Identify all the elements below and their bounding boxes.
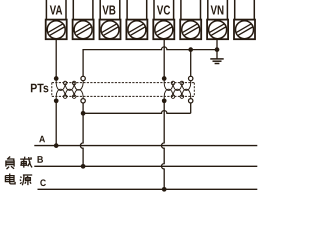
terminal 2 <box>73 0 94 39</box>
PT2 dot secondary left <box>162 98 167 103</box>
junction line A / PT1 left <box>54 143 59 148</box>
wire PT2 secondary right down to tie branch <box>190 103 192 113</box>
label PTs <box>31 84 49 93</box>
PT1 (left transformer) <box>54 76 85 103</box>
junction branch/PT1 wire <box>81 111 86 116</box>
PT1 dot secondary left <box>54 98 59 103</box>
PT2 top winding <box>164 79 191 91</box>
terminal VN (T7) <box>207 0 228 39</box>
label C <box>40 179 46 186</box>
terminal 4 <box>126 0 147 39</box>
wire bus to PT2 secondary right <box>190 50 192 77</box>
junction line B / PT1 right <box>81 164 86 169</box>
PT2 open terminal bottom right <box>189 99 193 103</box>
line A <box>34 145 257 147</box>
label B <box>38 156 44 163</box>
terminal VB (T3) <box>100 0 121 39</box>
tie branch between PT1 and PT2 right secondaries (hop over VC lead) <box>83 111 191 114</box>
line B <box>34 165 257 167</box>
wire bus to PT1 secondary right <box>82 50 84 77</box>
ground <box>210 50 223 64</box>
PT1 open terminal top right <box>81 76 85 80</box>
label 负载 (load) hand-drawn <box>6 157 32 170</box>
PT2 open terminal top right <box>189 76 193 80</box>
line C <box>38 188 258 190</box>
PT1 open terminal bottom right <box>81 99 85 103</box>
terminal VA (T1) <box>46 0 67 39</box>
wire VA terminal to PT1 primary <box>55 39 57 77</box>
junction bus/VN/ground <box>215 47 220 52</box>
wire VC terminal to PT2 primary (crosses bus with hop) <box>163 39 165 77</box>
label 电源 (power source) hand-drawn <box>5 174 32 186</box>
label A <box>39 136 45 142</box>
PT1 dot primary left <box>54 76 59 81</box>
dashed PT enclosure box <box>52 83 195 97</box>
PT2 (right transformer) <box>162 76 193 103</box>
terminal VC (T5) <box>153 0 174 39</box>
wire PT2 secondary left down to line C (hops over lines A and B) <box>161 103 164 189</box>
wire PT1 secondary right down to line B (hop over line A) <box>80 103 83 166</box>
junction line C / PT2 left <box>162 187 167 192</box>
wire VN terminal to bus <box>216 39 218 50</box>
PT2 bottom winding <box>164 89 191 101</box>
PT1 top winding <box>56 79 83 91</box>
wire PT1 secondary left down to line A <box>55 103 57 146</box>
terminal 8 <box>234 0 255 39</box>
PT1 bottom winding <box>56 89 83 101</box>
terminal 6 <box>180 0 201 39</box>
junction bus/PT2 <box>188 47 193 52</box>
bus wire (secondary common) with hop over VC wire <box>83 47 217 50</box>
PT2 dot primary left <box>162 76 167 81</box>
